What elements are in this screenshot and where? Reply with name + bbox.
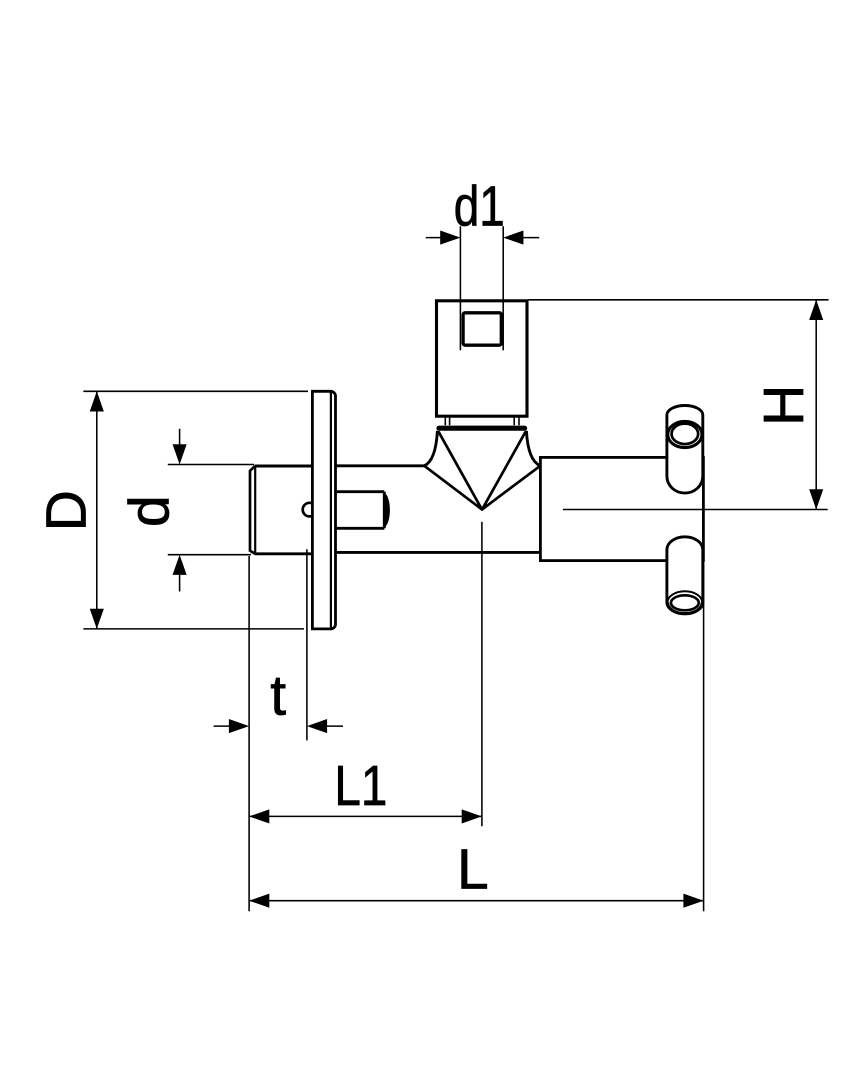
cone left flare (424, 431, 437, 466)
spigot end cap with chamfer (250, 466, 255, 554)
H extension line top (529, 299, 829, 301)
d1 arrow right (503, 231, 523, 245)
H arrow bottom (809, 489, 823, 509)
t extension line left (248, 556, 250, 911)
vertical centerline (481, 522, 483, 826)
svg-text:D: D (35, 490, 99, 531)
D dimension line (96, 391, 98, 629)
cone right flare (526, 431, 540, 466)
body top edge left of cone (336, 464, 425, 467)
L arrow right (683, 894, 703, 908)
H dimension line (815, 300, 817, 510)
screw hole circle (303, 503, 317, 517)
t dimension stem right (325, 725, 343, 727)
svg-text:d: d (117, 495, 181, 527)
wall spigot top edge (255, 465, 313, 468)
flange rim line (330, 392, 332, 628)
d1 dimension line left (426, 237, 442, 239)
t arrow left (pointing right) (229, 719, 249, 733)
t extension line right (306, 549, 308, 740)
handle bar top end face outer (668, 421, 702, 447)
d1 extension line left (459, 226, 461, 350)
D extension line top (83, 390, 308, 392)
svg-text:L: L (457, 838, 489, 902)
svg-text:L1: L1 (334, 754, 387, 818)
svg-text:H: H (752, 385, 816, 426)
neck ticks left (445, 418, 449, 426)
H arrow top (809, 300, 823, 320)
wall spigot bottom edge (255, 552, 313, 555)
d extension line bottom (168, 554, 251, 556)
valve seat cone lines (424, 432, 540, 509)
d dimension stem top (179, 429, 181, 446)
L arrow left (249, 894, 269, 908)
L dimension line (249, 900, 703, 902)
L1 dimension line (249, 815, 482, 817)
D arrow bottom (90, 609, 104, 629)
d1 arrow left (440, 231, 460, 245)
square drive recess (463, 313, 501, 345)
svg-text:t: t (270, 664, 286, 728)
d1 dimension line right (522, 237, 540, 239)
wall flange (312, 391, 335, 629)
d arrow top (pointing down) (173, 444, 187, 464)
handle bar top end face inner (672, 424, 699, 444)
d dimension stem bottom (179, 573, 181, 592)
neck ticks right (514, 418, 519, 426)
handle bar bottom (667, 537, 703, 614)
L1 arrow left (249, 809, 269, 823)
outlet boss (336, 492, 384, 529)
d extension line top (168, 464, 254, 466)
L1 arrow right (462, 809, 482, 823)
d1 extension line right (502, 226, 504, 350)
cone top bar (436, 426, 527, 431)
body bottom edge (336, 551, 541, 554)
t dimension stem left (214, 725, 231, 727)
t arrow right (pointing left) (307, 719, 327, 733)
spigot chamfer inner line (254, 466, 256, 553)
L extension line right (703, 563, 705, 912)
handle bar bottom end face inner (671, 595, 699, 610)
handle bar top (667, 406, 703, 494)
D arrow top (90, 391, 104, 411)
svg-text:d1: d1 (454, 175, 505, 239)
D extension line bottom (83, 628, 304, 630)
handle bar bottom end face outer rim (667, 603, 702, 614)
outlet boss dark cap (384, 493, 390, 527)
vertical inlet pipe body (437, 301, 528, 416)
horizontal centerline (563, 509, 828, 511)
handle block (540, 457, 703, 560)
d arrow bottom (pointing up) (173, 555, 187, 575)
